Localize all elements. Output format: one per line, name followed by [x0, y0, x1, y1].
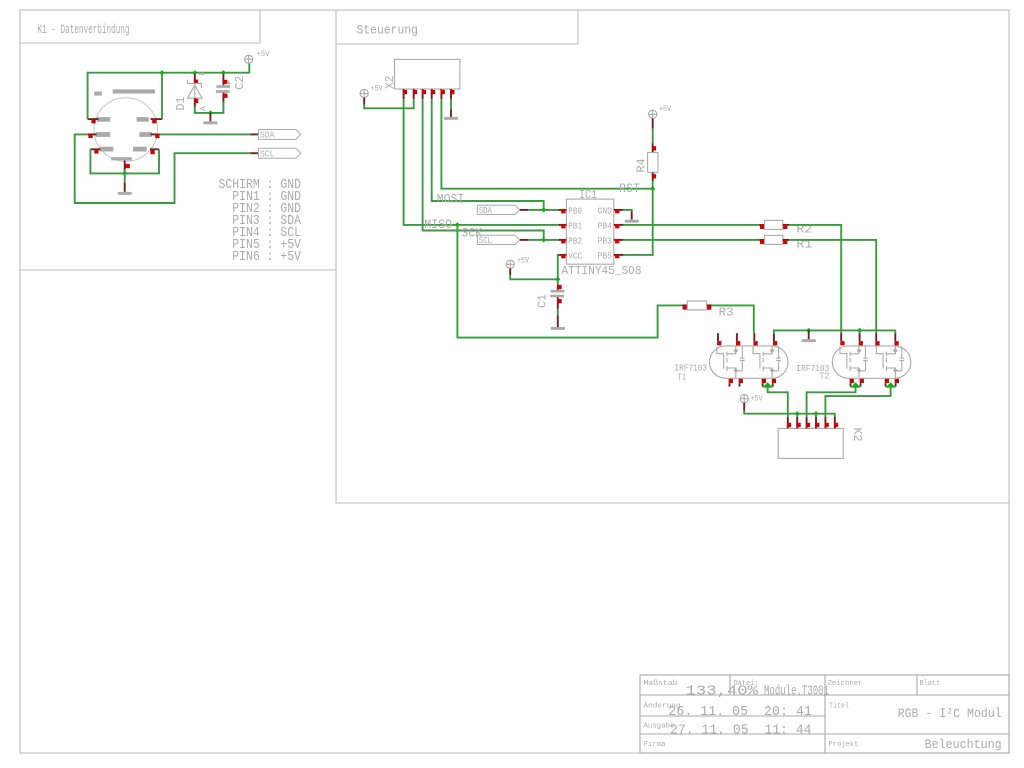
- svg-text:GND: GND: [598, 205, 613, 216]
- power +5V symbol X2: [360, 89, 368, 97]
- svg-text:PB1: PB1: [568, 220, 582, 231]
- transistor T2 bottom pin 3: [885, 383, 887, 386]
- transistor T2 bottom pin 1: [850, 383, 852, 386]
- wire RST net X2 pin5: [441, 99, 652, 189]
- node junction MISO loop: [455, 222, 460, 227]
- connector K1 pad pin5: [97, 117, 111, 122]
- svg-text:Module.T3001: Module.T3001: [764, 684, 829, 700]
- node junction rail ground: [806, 328, 811, 333]
- transistor T1 top pin 2: [736, 333, 738, 341]
- svg-text:T2: T2: [820, 372, 830, 382]
- node junction rail T2 drain1: [857, 328, 862, 333]
- wire T2 source B to K2 pin5: [825, 387, 890, 417]
- wire +5V to R4 top: [652, 129, 654, 144]
- wire drain rail T1/T2: [774, 330, 895, 333]
- svg-text:Zeichner: Zeichner: [828, 680, 863, 688]
- svg-text:PB4: PB4: [598, 220, 613, 231]
- wire SCL loop from connector pin4: [75, 134, 251, 203]
- svg-text:26. 11. 05 20: 41: 26. 11. 05 20: 41: [668, 704, 812, 720]
- ground pin connector: [124, 182, 126, 192]
- resistor R2 right pin: [783, 224, 790, 226]
- node junction VCC/C1: [555, 277, 560, 282]
- connector K1 pin5 (top-left): [88, 118, 99, 120]
- connector K1 pin6 (top-right): [151, 118, 163, 120]
- connector K2 pin 1: [787, 417, 789, 428]
- wire T2 source A merge triangle: [851, 386, 861, 388]
- svg-text:PB3: PB3: [598, 235, 613, 246]
- wire MISO net X2 pin1 to IC1 PB1: [404, 99, 559, 225]
- wire rail to T2 pin2: [859, 330, 861, 333]
- svg-text:D1: D1: [174, 97, 188, 111]
- svg-text:X2: X2: [383, 76, 397, 90]
- wire SCK net X2 pin3: [423, 99, 544, 240]
- transistor T1 fet B internals: [753, 346, 781, 377]
- svg-text:PIN6 : +5V: PIN6 : +5V: [219, 250, 302, 265]
- node junction K2 pin2: [795, 411, 800, 416]
- connector X2 pin 2: [413, 89, 415, 99]
- net flag SCL K1: [258, 148, 301, 158]
- connector K2 body: [778, 428, 843, 458]
- svg-text:+5V: +5V: [659, 105, 671, 114]
- resistor R3 right pin: [707, 304, 712, 306]
- transistor T1 bottom pin 3: [762, 383, 764, 386]
- ground pin IC1: [631, 212, 633, 220]
- svg-text:PB0: PB0: [568, 205, 582, 216]
- stub +5V X2: [363, 98, 365, 105]
- transistor T2 top pin 3: [875, 333, 877, 341]
- transistor T2 top pin 4: [894, 333, 896, 341]
- stub SDA flag to wire: [520, 209, 528, 211]
- transistor T2 bottom pin 2: [860, 383, 862, 386]
- svg-text:SDA: SDA: [260, 130, 275, 141]
- svg-text:VCC: VCC: [568, 250, 582, 261]
- resistor R2 body: [765, 220, 783, 229]
- ic IC1 pin PB4: [614, 224, 624, 226]
- section header box Steuerung: [336, 10, 578, 44]
- resistor R4 top pin: [652, 143, 654, 152]
- node junction K2 pin4: [813, 411, 818, 416]
- transistor T2 top pin 2: [859, 333, 861, 341]
- svg-text:Projekt: Projekt: [829, 741, 859, 749]
- connector K2 pin 5: [824, 417, 826, 428]
- connector K2 pin 2: [796, 417, 798, 428]
- ic IC1 pin GND: [614, 209, 624, 211]
- wire R1 to T2 gate2: [789, 240, 876, 333]
- resistor R4 bottom pin: [652, 172, 654, 181]
- wire +5V top rail from connector to +5V symbol: [88, 63, 250, 119]
- connector K1 shield pad small: [94, 92, 102, 96]
- resistor R1 right pin: [783, 239, 790, 241]
- svg-text:MISO: MISO: [424, 218, 452, 232]
- net flag SDA Steuerung: [477, 205, 520, 214]
- wire X2 pin6 to ground: [450, 99, 452, 109]
- svg-text:Beleuchtung: Beleuchtung: [925, 737, 1002, 752]
- connector K1 pad pin1: [100, 147, 114, 152]
- svg-text:K2: K2: [850, 428, 864, 442]
- connector K1 pin2 (bottom-right): [150, 148, 159, 150]
- wire T1 source to K2 pin1: [768, 387, 788, 417]
- svg-text:PB2: PB2: [568, 235, 582, 246]
- svg-text:SDA: SDA: [479, 206, 492, 216]
- wire SCL to PB2: [528, 239, 558, 241]
- svg-text:Steuerung: Steuerung: [357, 24, 419, 38]
- wire shield pin to ground junction: [124, 170, 126, 174]
- ic IC1 pin PB5: [614, 254, 624, 256]
- ground symbol IC1: [625, 220, 639, 223]
- diode D1 zener symbol: [187, 80, 202, 99]
- node junction ground connector: [122, 171, 127, 176]
- wire IC1 GND pin to ground: [623, 210, 631, 212]
- capacitor C2 plus mark: [226, 81, 231, 86]
- ground pin X2: [450, 109, 452, 117]
- connector X2 pin 4: [431, 89, 433, 99]
- svg-text:+5V: +5V: [517, 256, 529, 265]
- resistor R2 left pin: [760, 224, 765, 226]
- resistor R4 body: [648, 153, 658, 173]
- wire PB1/MISO loop down to R3: [457, 225, 682, 338]
- svg-text:IC1: IC1: [579, 188, 597, 202]
- svg-text:R4: R4: [635, 159, 649, 173]
- transistor T1 bottom pin 4: [772, 383, 774, 386]
- svg-text:Firma: Firma: [644, 741, 666, 749]
- wire MOSI net X2 pin4: [432, 99, 544, 210]
- transistor T2 fet A internals: [840, 346, 868, 377]
- ground symbol D1/C2: [203, 121, 217, 124]
- node junction MOSI/SDA/PB0: [541, 207, 546, 212]
- ic IC1 pin PB2: [558, 239, 566, 241]
- transistor T2 body IRF7103: [832, 346, 911, 378]
- wire RST junction down to PB5: [623, 189, 652, 255]
- svg-text:K: K: [199, 71, 208, 76]
- svg-text:RST: RST: [619, 182, 640, 196]
- wire SDA to PB0: [528, 209, 558, 211]
- svg-text:+5V: +5V: [257, 50, 270, 59]
- svg-text:T1: T1: [678, 373, 687, 383]
- resistor R1 body: [765, 235, 783, 244]
- wire connector pin6 to +5V rail: [161, 73, 163, 119]
- svg-text:A: A: [199, 106, 208, 111]
- connector K1 top pad: [113, 89, 155, 93]
- wire +5V rail to K2 even pins: [744, 411, 835, 418]
- wire SDA from connector pin3: [160, 133, 251, 135]
- transistor T2 fet B internals: [876, 346, 904, 377]
- connector K1 pad pin3: [96, 132, 111, 137]
- connector X2 pin 5: [440, 89, 442, 99]
- node junction SCK/SCL/PB2: [541, 237, 546, 242]
- connector K1 pin3 (mid-left): [88, 133, 97, 135]
- wire junction to C1: [557, 279, 559, 284]
- connector K1 pad shield bottom: [111, 157, 132, 160]
- power +5V symbol R4: [649, 110, 657, 118]
- svg-text:MOSI: MOSI: [437, 192, 465, 206]
- transistor T2 bottom pin 4: [895, 383, 897, 386]
- power +5V symbol K1: [245, 55, 253, 63]
- stub +5V VCC: [509, 268, 511, 275]
- transistor T1 top pin 3: [753, 333, 755, 341]
- ground symbol connector: [118, 192, 132, 195]
- power +5V symbol K2: [740, 395, 748, 403]
- svg-text:K1 - Datenverbindung: K1 - Datenverbindung: [38, 23, 130, 37]
- transistor T2 top pin 1: [840, 333, 842, 341]
- ground symbol X2: [444, 117, 458, 120]
- transistor T1 bottom pin 2: [739, 383, 741, 386]
- capacitor C2 top pin: [222, 74, 224, 85]
- connector K1 pad pin6: [137, 117, 149, 122]
- svg-text:133,40%: 133,40%: [686, 684, 759, 700]
- svg-text:ATTINY45_SO8: ATTINY45_SO8: [562, 264, 642, 278]
- connector K2 pin 3: [806, 417, 808, 428]
- transistor T1 fet A internals: [717, 346, 745, 377]
- ic IC1 pin VCC: [558, 254, 566, 256]
- svg-text:+5V: +5V: [371, 85, 383, 94]
- power +5V symbol VCC: [506, 260, 514, 268]
- wire D1 anode / C2 bottom to ground net: [195, 102, 224, 113]
- svg-text:SCL: SCL: [260, 148, 275, 159]
- ground symbol C1: [551, 327, 565, 330]
- section frame K1: [20, 10, 336, 270]
- svg-text:Maßstab: Maßstab: [644, 680, 678, 688]
- wire T2 source A to K2 pin3: [807, 387, 856, 417]
- ground pin C1: [557, 315, 559, 327]
- ic IC1 body ATTINY45: [566, 199, 613, 264]
- stub SCL flag to wire: [520, 239, 528, 241]
- connector X2 pin 1: [403, 89, 405, 99]
- connector K1 shield pin (bottom-center): [124, 161, 126, 171]
- ic IC1 pin PB1: [558, 224, 566, 226]
- capacitor C1 bottom pin: [557, 297, 559, 309]
- node junction D1 cathode on +5V rail: [192, 70, 197, 75]
- svg-text:SCL: SCL: [479, 236, 492, 246]
- transistor T1 top pin 4: [773, 333, 775, 341]
- connector K1 pin1 (bottom-left): [90, 148, 100, 150]
- transistor T1 bottom pin 1: [729, 383, 731, 386]
- svg-text:27. 11. 05 11: 44: 27. 11. 05 11: 44: [670, 722, 812, 738]
- connector K2 pin 6: [834, 417, 836, 428]
- wire T2 source B merge triangle: [886, 386, 896, 388]
- connector X2 body: [395, 59, 460, 89]
- section frame Steuerung: [336, 270, 1009, 503]
- capacitor C2 bottom pin: [222, 93, 224, 104]
- svg-text:Blatt: Blatt: [920, 680, 941, 688]
- capacitor C1 top pin: [557, 284, 559, 290]
- resistor R1 left pin: [760, 239, 765, 241]
- ground pin rail: [808, 330, 810, 339]
- wire R3 to T1 gate2: [712, 305, 754, 333]
- node junction C2 plus on +5V rail: [221, 70, 226, 75]
- ground symbol rail: [802, 339, 816, 342]
- wire VCC pin down: [557, 255, 560, 279]
- resistor R3 left pin: [682, 304, 687, 306]
- net flag SCL Steuerung: [477, 235, 520, 244]
- svg-text:RGB - I²C Modul: RGB - I²C Modul: [898, 706, 1002, 721]
- connector X2 pin 3: [422, 89, 424, 99]
- diode D1 cathode pin: [194, 74, 196, 83]
- svg-text:C1: C1: [536, 294, 550, 308]
- connector X2 pin 6: [450, 89, 452, 99]
- capacitor C1 plates: [551, 290, 565, 293]
- svg-text:Titel: Titel: [829, 702, 849, 710]
- ic IC1 pin PB3: [614, 239, 624, 241]
- transistor T1 top pin 1: [717, 333, 719, 341]
- diode D1 anode pin: [194, 98, 196, 108]
- connector K1 mini-DIN circle: [94, 98, 158, 162]
- wire junction to K2 pin2: [796, 414, 798, 417]
- wire junction to K2 pin4: [815, 414, 817, 417]
- node junction connector top-right: [159, 70, 164, 75]
- transistor T1 body IRF7103: [710, 346, 789, 378]
- wire C1 bottom to ground: [557, 309, 559, 316]
- stub +5V K2: [743, 403, 745, 411]
- section header box K1: [20, 10, 260, 43]
- svg-text:PB5: PB5: [598, 250, 613, 261]
- resistor R3 body: [687, 301, 707, 310]
- ground pin below junction: [209, 113, 211, 122]
- wire PB3 to R1: [623, 239, 759, 241]
- connector K1 pad pin4: [139, 132, 152, 137]
- node junction ground branch K1: [208, 110, 213, 115]
- wire +5V to X2 pin2: [364, 99, 414, 108]
- connector K1 pad pin2: [133, 147, 147, 152]
- wire +5V to VCC junction: [510, 275, 558, 279]
- ic IC1 pin PB0: [558, 209, 566, 211]
- wire R4 bottom to RST junction: [652, 181, 654, 188]
- capacitor C2 plates: [216, 85, 230, 88]
- connector K1 pin4 (mid-right): [151, 133, 160, 135]
- stub +5V to R4: [652, 118, 654, 128]
- svg-text:C2: C2: [233, 76, 247, 90]
- connector K2 pin 4: [815, 417, 817, 428]
- wire R2 to T2 gate1: [789, 225, 841, 333]
- node junction RST/R4/PB5: [650, 186, 655, 191]
- net flag SDA K1: [258, 130, 301, 140]
- wire T1 source merge triangle: [763, 386, 773, 388]
- svg-text:R3: R3: [719, 305, 734, 319]
- wire PB4 to R2: [623, 224, 759, 226]
- wire junction down to ground: [124, 173, 126, 182]
- stub SDA to flag: [250, 133, 258, 135]
- stub SCL to flag: [250, 152, 258, 154]
- title block grid: [640, 675, 1009, 753]
- svg-text:+5V: +5V: [751, 394, 763, 403]
- wire ground loop connector pins 1 2 shield: [90, 149, 159, 173]
